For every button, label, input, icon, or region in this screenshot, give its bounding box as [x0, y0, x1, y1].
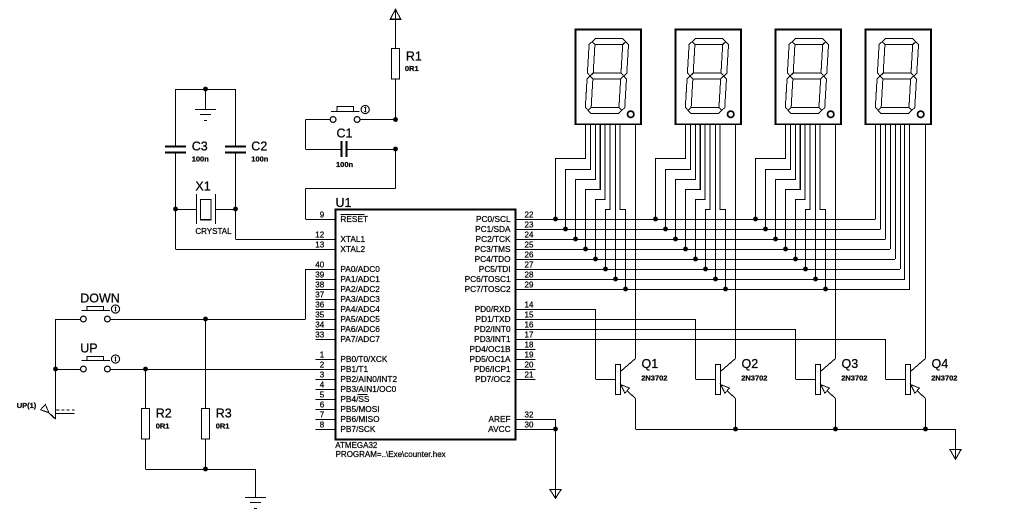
wire DS4 segment pin 4 stub [890, 124, 892, 249]
svg-text:37: 37 [315, 291, 324, 300]
junction DS1 pin 4 on PC3 bus [583, 247, 588, 252]
label C2 [251, 140, 267, 154]
svg-text:PD2/INT0: PD2/INT0 [474, 324, 511, 334]
svg-text:8: 8 [320, 421, 325, 430]
svg-text:100n: 100n [336, 160, 354, 169]
wire R3 top (crosses UP wire) [205, 319, 207, 409]
pin 20 PD6/ICP1 of U1 [474, 361, 536, 374]
capacitor C2 plates [225, 147, 246, 153]
junction DS2 pin 2 on PC1 bus [663, 227, 668, 232]
label R2 [156, 406, 172, 420]
svg-text:Q4: Q4 [932, 357, 949, 371]
svg-text:36: 36 [315, 301, 324, 310]
pin 35 PA5/ADC5 of U1 [315, 311, 380, 324]
pin 26 PC4/TDO of U1 [475, 251, 536, 264]
wire C3 bottom to X1 left [175, 153, 177, 209]
junction DS3 pin 4 on PC3 bus [783, 247, 788, 252]
pin 12 XTAL1 of U1 [315, 231, 365, 244]
wire emitter rail [636, 429, 956, 459]
svg-text:C1: C1 [337, 127, 353, 141]
junction DS1 pin 2 on PC1 bus [563, 227, 568, 232]
push button DOWN [81, 305, 120, 322]
value 100n of C2 [251, 155, 269, 164]
wire DS4 segment pin 3 stub [885, 124, 887, 239]
pin 19 PD5/OC1A of U1 [470, 351, 536, 364]
value 2N3702 of Q4 [931, 374, 957, 383]
wire UP right to PB1 (pin 2) [111, 369, 336, 371]
wire PC0 bus [536, 124, 876, 220]
wire DS1 segment pin 8 to PC7 [620, 124, 626, 289]
resistor R2 body [142, 409, 150, 440]
wire PC2 bus [536, 124, 886, 240]
junction DS2 pin 1 on PC0 bus [653, 217, 658, 222]
junction DS3 pin 1 on PC0 bus [753, 217, 758, 222]
wire AREF to AVCC node [536, 419, 556, 429]
svg-text:PD1/TXD: PD1/TXD [476, 314, 511, 324]
power symbol ground arrow (emitter rail) [950, 450, 961, 460]
wire DS4 common cathode to Q4 collector [925, 124, 927, 359]
wire DS4 segment pin 5 stub [895, 124, 897, 259]
wire DS4 segment pin 1 stub [875, 124, 877, 219]
svg-text:14: 14 [525, 301, 534, 310]
svg-text:Q3: Q3 [842, 357, 859, 371]
svg-text:1: 1 [320, 351, 325, 360]
svg-text:XTAL2: XTAL2 [340, 244, 365, 254]
label ATMEGA32 [335, 441, 378, 450]
pin 40 PA0/ADC0 of U1 [315, 261, 380, 274]
junction button/R1 [393, 117, 398, 122]
wire PC6 bus [536, 124, 905, 280]
value 2N3702 of Q3 [841, 374, 867, 383]
svg-text:PC3/TMS: PC3/TMS [475, 244, 511, 254]
svg-text:PD4/OC1B: PD4/OC1B [470, 344, 512, 354]
pin 23 PC1/SDA of U1 [475, 221, 535, 234]
junction Q2 emitter/rail [733, 427, 738, 432]
svg-text:35: 35 [315, 311, 324, 320]
op-amp U1 box (ATMEGA32 MCU body) [336, 210, 516, 440]
pin 8 PB7/SCK of U1 [316, 421, 376, 434]
svg-text:100n: 100n [192, 155, 210, 164]
transistor Q1 [616, 359, 636, 430]
svg-text:R1: R1 [406, 50, 422, 64]
svg-text:PD5/OC1A: PD5/OC1A [470, 354, 512, 364]
capacitor C3 plates [165, 147, 186, 153]
junction DOWN/R3 [203, 317, 208, 322]
wire DS3 segment pin 1 to PC0 [756, 124, 786, 219]
junction DS3 pin 3 on PC2 bus [773, 237, 778, 242]
svg-text:7: 7 [320, 411, 325, 420]
svg-text:2N3702: 2N3702 [841, 374, 867, 383]
transistor Q2 [716, 359, 736, 430]
svg-text:ATMEGA32: ATMEGA32 [335, 441, 378, 450]
svg-text:28: 28 [525, 271, 534, 280]
value 100n of C1 [336, 160, 354, 169]
junction top rail / ground [203, 87, 208, 92]
svg-text:23: 23 [525, 221, 534, 230]
wire reset button right to node [360, 119, 395, 121]
junction R3/ground rail [203, 467, 208, 472]
svg-text:RESET: RESET [340, 214, 368, 224]
junction X1 left / C3 [173, 207, 178, 212]
wire DS3 segment pin 6 to PC5 [806, 124, 811, 269]
svg-text:16: 16 [525, 321, 534, 330]
svg-text:13: 13 [315, 241, 324, 250]
junction AREF/AVCC [553, 427, 558, 432]
label R1 [406, 50, 422, 64]
svg-text:PC4/TDO: PC4/TDO [475, 254, 512, 264]
pin 33 PA7/ADC7 of U1 [315, 331, 380, 344]
value 0R1 of R2 [156, 421, 170, 430]
wire DS3 segment pin 5 to PC4 [796, 124, 806, 259]
wire DS4 segment pin 6 stub [900, 124, 902, 269]
value 100n of C3 [192, 155, 210, 164]
svg-text:PC5/TDI: PC5/TDI [479, 264, 511, 274]
7-segment display DS3 [776, 30, 842, 125]
svg-text:PA0/ADC0: PA0/ADC0 [340, 264, 380, 274]
svg-text:9: 9 [320, 211, 325, 220]
wire PC1 bus [536, 124, 881, 230]
svg-text:32: 32 [525, 411, 534, 420]
svg-text:PA7/ADC7: PA7/ADC7 [340, 334, 380, 344]
svg-text:DOWN: DOWN [80, 291, 120, 305]
wire XTAL1 net (right column to pin 12) [236, 209, 336, 240]
label X1 [195, 179, 210, 193]
wire R2 bottom [145, 439, 147, 469]
value 2N3702 of Q2 [741, 374, 767, 383]
power symbol VCC (arrow up, feeds R1) [390, 9, 401, 48]
value 0R1 of R1 [405, 64, 419, 73]
svg-text:29: 29 [525, 281, 534, 290]
pin 36 PA4/ADC4 of U1 [315, 301, 380, 314]
wire DOWN right to PA0 riser [111, 319, 306, 321]
svg-text:PA4/ADC4: PA4/ADC4 [340, 304, 380, 314]
wire DS3 segment pin 3 to PC2 [776, 124, 796, 239]
svg-text:24: 24 [525, 231, 534, 240]
wire DS1 segment pin 4 to PC3 [586, 124, 601, 249]
pin 6 PB5/MOSI of U1 [316, 401, 380, 414]
wire DS4 segment pin 7 stub [904, 124, 906, 279]
junction Q3 emitter/rail [833, 427, 838, 432]
junction DS3 pin 7 on PC6 bus [813, 277, 818, 282]
svg-text:21: 21 [525, 371, 534, 380]
wire DS2 common cathode to Q2 collector [735, 124, 737, 359]
pin 2 PB1/T1 of U1 [316, 361, 369, 374]
wire AVCC [536, 429, 556, 431]
junction DS1 pin 5 on PC4 bus [593, 257, 598, 262]
svg-text:PB0/T0/XCK: PB0/T0/XCK [340, 354, 388, 364]
svg-text:U1: U1 [336, 196, 352, 210]
wire C2 top [235, 89, 237, 146]
wire DOWN left [56, 319, 81, 321]
svg-text:2N3702: 2N3702 [641, 374, 667, 383]
wire R1 bottom to reset-button junction [395, 79, 397, 119]
svg-text:Q1: Q1 [642, 357, 659, 371]
svg-text:38: 38 [315, 281, 324, 290]
svg-text:PD7/OC2: PD7/OC2 [475, 374, 511, 384]
svg-text:R3: R3 [216, 406, 232, 420]
pin 7 PB6/MISO of U1 [316, 411, 381, 424]
transistor Q3 [816, 359, 836, 430]
resistor R3 body [202, 409, 210, 440]
svg-text:C3: C3 [192, 140, 208, 154]
pin 37 PA3/ADC3 of U1 [315, 291, 380, 304]
value CRYSTAL of X1 [195, 227, 232, 236]
7-segment display DS4 [866, 30, 932, 125]
svg-text:PA5/ADC5: PA5/ADC5 [340, 314, 380, 324]
wire riser to PA0 (pin 40) [306, 269, 336, 319]
svg-text:PB1/T1: PB1/T1 [340, 364, 368, 374]
svg-text:PC0/SCL: PC0/SCL [476, 214, 511, 224]
svg-text:PB5/MOSI: PB5/MOSI [340, 404, 379, 414]
pin 39 PA1/ADC1 of U1 [315, 271, 380, 284]
pin 25 PC3/TMS of U1 [475, 241, 536, 254]
crystal X1 [176, 194, 236, 224]
svg-text:Q2: Q2 [742, 357, 759, 371]
svg-text:2: 2 [320, 361, 325, 370]
capacitor C1 plates [342, 141, 347, 157]
junction DS1 pin 7 on PC6 bus [613, 277, 618, 282]
value 2N3702 of Q1 [641, 374, 667, 383]
svg-text:25: 25 [525, 241, 534, 250]
wire DS3 segment pin 8 to PC7 [820, 124, 826, 289]
wire DS2 segment pin 2 to PC1 [666, 124, 691, 229]
label PROGRAM [336, 450, 446, 459]
label Q2 [742, 357, 759, 371]
svg-text:40: 40 [315, 261, 324, 270]
junction DS2 pin 8 on PC7 bus [723, 287, 728, 292]
junction DS2 pin 4 on PC3 bus [683, 247, 688, 252]
wire left column DOWN to UP(1) terminal [55, 319, 57, 419]
7-segment display DS2 [676, 30, 742, 125]
svg-text:PA3/ADC3: PA3/ADC3 [340, 294, 380, 304]
pin 5 PB4/SS of U1 [316, 391, 370, 404]
svg-text:PD3/INT1: PD3/INT1 [474, 334, 511, 344]
wire DS1 common cathode to Q1 collector [635, 124, 637, 359]
pin 32 AREF of U1 [488, 411, 535, 424]
wire PD0 to Q1 base [536, 309, 616, 380]
junction Q4 emitter/rail [923, 427, 928, 432]
label C1 [337, 127, 353, 141]
svg-text:PB2/AIN0/INT2: PB2/AIN0/INT2 [340, 374, 397, 384]
pin 28 PC6/TOSC1 of U1 [465, 271, 536, 284]
svg-text:C2: C2 [251, 140, 267, 154]
svg-text:0R1: 0R1 [405, 64, 419, 73]
junction DS2 pin 7 on PC6 bus [713, 277, 718, 282]
wire DS2 segment pin 5 to PC4 [696, 124, 706, 259]
svg-text:UP: UP [80, 341, 97, 355]
svg-text:AREF: AREF [488, 414, 510, 424]
svg-text:PA6/ADC6: PA6/ADC6 [340, 324, 380, 334]
pin 13 XTAL2 of U1 [315, 241, 365, 254]
wire DS3 common cathode to Q3 collector [835, 124, 837, 359]
svg-text:PB6/MISO: PB6/MISO [340, 414, 380, 424]
junction DS1 pin 1 on PC0 bus [553, 217, 558, 222]
ground (bottom left) [245, 469, 266, 509]
pin 9 RESET of U1 [316, 211, 369, 224]
transistor Q4 [906, 359, 926, 430]
pin 17 PD3/INT1 of U1 [474, 331, 535, 344]
wire PC3 bus [536, 124, 891, 250]
svg-text:PA2/ADC2: PA2/ADC2 [340, 284, 380, 294]
wire DS2 segment pin 7 to PC6 [715, 124, 717, 279]
junction DS2 pin 5 on PC4 bus [693, 257, 698, 262]
wire DS2 segment pin 6 to PC5 [706, 124, 711, 269]
svg-text:XTAL1: XTAL1 [340, 234, 365, 244]
junction DS1 pin 8 on PC7 bus [623, 287, 628, 292]
wire R3 bottom [205, 439, 207, 469]
junction DS2 pin 3 on PC2 bus [673, 237, 678, 242]
svg-text:PB4/SS: PB4/SS [340, 394, 370, 404]
wire DS1 segment pin 3 to PC2 [576, 124, 596, 239]
wire DS4 segment pin 8 stub [909, 124, 911, 289]
resistor R1 body [392, 49, 400, 80]
wire reset button left to C1 left [306, 120, 331, 150]
svg-text:17: 17 [525, 331, 534, 340]
wire C2 bottom to X1 right [235, 153, 237, 209]
pin 3 PB2/AIN0/INT2 of U1 [316, 371, 398, 384]
svg-text:2N3702: 2N3702 [741, 374, 767, 383]
pin 22 PC0/SCL of U1 [476, 211, 535, 224]
junction DS1 pin 3 on PC2 bus [573, 237, 578, 242]
pin 34 PA6/ADC6 of U1 [315, 321, 380, 334]
wire UP left [56, 369, 81, 371]
svg-text:CRYSTAL: CRYSTAL [195, 227, 232, 236]
svg-text:39: 39 [315, 271, 324, 280]
svg-text:20: 20 [525, 361, 534, 370]
wire DS3 segment pin 4 to PC3 [786, 124, 801, 249]
svg-text:100n: 100n [251, 155, 269, 164]
junction C1/R1 line [393, 147, 398, 152]
terminal UP(1) [41, 404, 75, 419]
pin 4 PB3/AIN1/OC0 of U1 [316, 381, 397, 394]
push button (reset) [330, 105, 369, 122]
svg-text:PB7/SCK: PB7/SCK [340, 424, 376, 434]
svg-text:AVCC: AVCC [488, 424, 510, 434]
junction left column / UP wire [53, 367, 58, 372]
label DOWN [80, 291, 120, 305]
value 0R1 of R3 [216, 421, 230, 430]
svg-text:6: 6 [320, 401, 325, 410]
svg-text:2N3702: 2N3702 [931, 374, 957, 383]
junction DS2 pin 6 on PC5 bus [703, 267, 708, 272]
power symbol ground arrow (AVCC) [550, 490, 561, 499]
svg-text:PB3/AIN1/OC0: PB3/AIN1/OC0 [340, 384, 396, 394]
wire DS3 segment pin 2 to PC1 [766, 124, 791, 229]
svg-text:PA1/ADC1: PA1/ADC1 [340, 274, 380, 284]
svg-text:18: 18 [525, 341, 534, 350]
7-segment display DS1 [576, 30, 642, 125]
wire DS1 segment pin 7 to PC6 [615, 124, 617, 279]
junction DS3 pin 5 on PC4 bus [793, 257, 798, 262]
pin 14 PD0/RXD of U1 [475, 301, 536, 314]
wire PC7 bus [536, 124, 910, 290]
wire AVCC down to ground arrow [555, 429, 557, 498]
label R3 [216, 406, 232, 420]
svg-text:22: 22 [525, 211, 534, 220]
label UP(1) [17, 401, 37, 410]
wire DS3 segment pin 7 to PC6 [815, 124, 817, 279]
svg-text:15: 15 [525, 311, 534, 320]
junction DS3 pin 8 on PC7 bus [823, 287, 828, 292]
svg-text:12: 12 [315, 231, 324, 240]
junction DS3 pin 2 on PC1 bus [763, 227, 768, 232]
wire DS4 segment pin 2 stub [880, 124, 882, 229]
pin 15 PD1/TXD of U1 [476, 311, 536, 324]
wire PC5 bus [536, 124, 901, 270]
pin 18 PD4/OC1B of U1 [470, 341, 536, 354]
wire top rail C3-C2 [176, 89, 236, 91]
svg-text:5: 5 [320, 391, 325, 400]
label Q3 [842, 357, 859, 371]
label Q1 [642, 357, 659, 371]
junction DS1 pin 6 on PC5 bus [603, 267, 608, 272]
label UP [80, 341, 97, 355]
wire ground rail R2-R3 [146, 469, 256, 471]
svg-text:X1: X1 [195, 179, 210, 193]
svg-text:PC6/TOSC1: PC6/TOSC1 [465, 274, 511, 284]
svg-text:33: 33 [315, 331, 324, 340]
junction X1 right / C2 [233, 207, 238, 212]
svg-text:UP(1): UP(1) [17, 401, 37, 410]
wire PC4 bus [536, 124, 896, 260]
svg-text:26: 26 [525, 251, 534, 260]
push button UP [81, 355, 120, 372]
label C3 [192, 140, 208, 154]
svg-text:19: 19 [525, 351, 534, 360]
wire DS2 segment pin 1 to PC0 [656, 124, 686, 219]
wire DS2 segment pin 3 to PC2 [676, 124, 696, 239]
svg-text:PD0/RXD: PD0/RXD [475, 304, 511, 314]
junction UP/R2 [143, 367, 148, 372]
pin 21 PD7/OC2 of U1 [475, 371, 535, 384]
label Q4 [932, 357, 949, 371]
pin 38 PA2/ADC2 of U1 [315, 281, 380, 294]
pin 29 PC7/TOSC2 of U1 [465, 281, 536, 294]
svg-text:PROGRAM=..\Exe\counter.hex: PROGRAM=..\Exe\counter.hex [336, 450, 446, 459]
wire R2 top [145, 369, 147, 409]
wire PD3 to Q4 base [536, 339, 906, 380]
svg-text:3: 3 [320, 371, 325, 380]
svg-text:R2: R2 [156, 406, 172, 420]
wire C1 right to R1 line [348, 149, 396, 151]
svg-text:34: 34 [315, 321, 324, 330]
wire C3 top [175, 89, 177, 146]
pin 27 PC5/TDI of U1 [479, 261, 536, 274]
ground (top, crystal caps) [195, 89, 216, 121]
pin 16 PD2/INT0 of U1 [474, 321, 535, 334]
wire DS1 segment pin 1 to PC0 [556, 124, 586, 219]
pin 24 PC2/TCK of U1 [476, 231, 536, 244]
wire C1 left [306, 149, 341, 151]
svg-text:PC7/TOSC2: PC7/TOSC2 [465, 284, 511, 294]
wire DS2 segment pin 4 to PC3 [686, 124, 701, 249]
svg-text:PC1/SDA: PC1/SDA [475, 224, 511, 234]
wire DS1 segment pin 2 to PC1 [566, 124, 591, 229]
pin 30 AVCC of U1 [488, 421, 535, 434]
svg-text:PC2/TCK: PC2/TCK [476, 234, 512, 244]
svg-text:4: 4 [320, 381, 325, 390]
label U1 [336, 196, 352, 210]
junction DS3 pin 6 on PC5 bus [803, 267, 808, 272]
svg-text:0R1: 0R1 [156, 421, 170, 430]
svg-text:0R1: 0R1 [216, 421, 230, 430]
svg-text:PD6/ICP1: PD6/ICP1 [474, 364, 511, 374]
wire PD2 to Q3 base [536, 329, 816, 380]
svg-text:27: 27 [525, 261, 534, 270]
wire DS2 segment pin 8 to PC7 [720, 124, 726, 289]
pin 1 PB0/T0/XCK of U1 [316, 351, 388, 364]
wire reset net down to U1 RESET pin [306, 149, 396, 220]
